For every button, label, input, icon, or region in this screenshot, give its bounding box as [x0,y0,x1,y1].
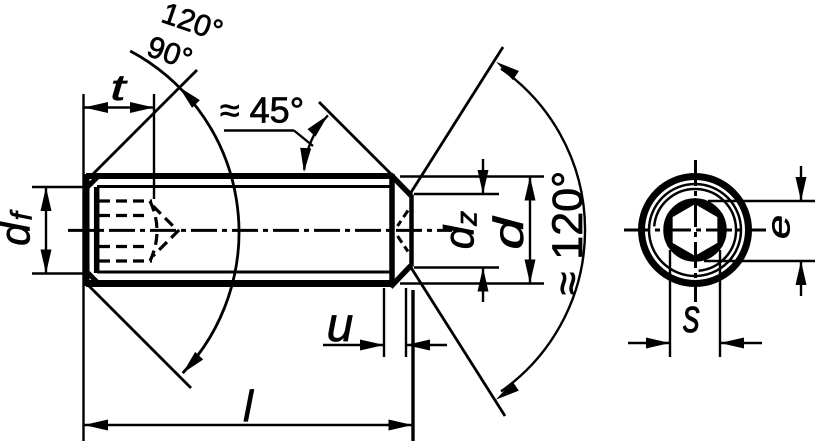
d_f dimension [32,186,84,188]
cup hidden cone [398,211,409,227]
angle arc 90/120 [130,51,239,373]
screw body bottom edge [86,280,393,287]
d_z dimension [414,193,499,195]
label 90deg [143,30,197,76]
socket bore circle e [666,201,724,259]
label approx 120 [544,171,592,296]
e dimension [708,200,815,202]
thread root bottom [97,271,392,274]
label d [485,215,532,249]
120deg cone line upper [410,47,503,194]
u dimension [383,288,385,357]
45deg chamfer construction line [319,102,392,175]
screw body top edge [86,173,393,179]
s dimension [669,250,671,357]
t dimension [82,94,84,441]
45deg angle arc [304,115,328,170]
thread root top [97,185,392,188]
90deg flank line upper [84,70,197,183]
bottom-left chamfer [85,270,98,283]
top-left chamfer [85,177,98,190]
end view centerline vertical [694,160,697,302]
socket bottom arc [150,201,157,261]
svg-text:d: d [485,215,532,249]
label d_z [436,211,484,249]
svg-text:≈ 120°: ≈ 120° [544,171,592,296]
outer circle d [642,177,749,284]
svg-text:e: e [761,215,797,239]
arrow on lower flank [183,352,204,373]
top-right chamfer [391,175,412,196]
90deg flank line lower [84,281,191,388]
hex socket hidden lines [99,199,152,202]
l dimension [411,290,414,441]
svg-text:l: l [243,382,254,431]
end view centerline horizontal [624,229,766,232]
left chamfer edge [94,187,100,273]
label d_f [0,209,39,245]
svg-text:s: s [683,289,700,342]
svg-text:≈ 45°: ≈ 45° [220,90,304,131]
screw left face [85,174,90,286]
cup face [409,195,414,267]
screw right face [389,174,395,286]
centerline side view [68,229,452,232]
arrow on upper flank [179,87,200,108]
hexagon socket [670,201,720,259]
label e [761,215,797,239]
d dimension [400,175,544,177]
thread root arc [654,189,736,271]
bottom-right chamfer [391,266,412,288]
angle arc 120 [501,69,585,392]
120deg cone line lower [410,266,505,416]
svg-text:u: u [327,299,354,352]
leader 45 [224,129,294,131]
drill cone point [153,206,178,256]
label 120deg [157,0,226,48]
chamfer circle [649,184,741,276]
svg-text:df: df [0,209,39,245]
